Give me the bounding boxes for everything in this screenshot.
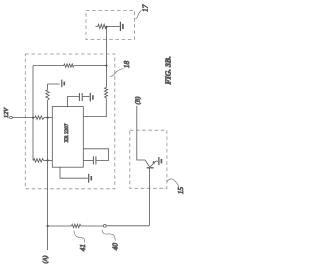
node dot at 12V junction (32, 116, 34, 118)
transistor Q1 collector wire down to bottom rail (148, 168, 150, 226)
capacitor C1 plates (78, 93, 80, 101)
IC bottom pin to ground (60, 167, 88, 178)
resistor on y=160.2 (34, 159, 44, 163)
svg-text:15: 15 (176, 187, 185, 195)
top horizontal wire y=65.6 (33, 65, 64, 67)
node dot in box 17 (105, 26, 107, 28)
timing capacitor loop right of IC (83, 149, 108, 161)
capacitor branch from IC top pin (67, 97, 79, 107)
wire cap to ground (83, 96, 90, 98)
svg-text:FIG. 3B.: FIG. 3B. (163, 56, 172, 84)
label 41 leader (74, 231, 85, 243)
svg-text:XR 2207: XR 2207 (64, 123, 70, 142)
svg-text:18: 18 (122, 61, 131, 69)
node dot at x=106.4 y=65.6 (105, 64, 107, 66)
12V terminal (10, 116, 13, 119)
transistor Q1 base lead diagonal (145, 160, 150, 167)
terminal circle 40 (103, 224, 106, 227)
ground below IC (88, 174, 90, 183)
node dot (46, 116, 48, 118)
transistor Q1 base bar (147, 167, 154, 169)
wire from resistor to ground in box 17 (107, 25, 120, 27)
resistor R vertical on x=106 (105, 88, 108, 98)
resistor on 12V wire (35, 116, 44, 120)
svg-text:17: 17 (140, 4, 149, 12)
svg-text:40: 40 (111, 243, 120, 251)
transistor Q1 emitter with arrow (150, 161, 156, 167)
left vertical wire x=33 (32, 66, 34, 161)
dashed box 18 (25, 54, 115, 189)
ground wire upper left (48, 84, 60, 90)
IC box U1 XR 2207 (52, 107, 83, 168)
12V wire (12, 117, 35, 119)
resistor in box 17 (96, 24, 107, 28)
bottom rail y=226 (48, 225, 72, 227)
ground after C1 (89, 93, 91, 102)
svg-text:12V: 12V (3, 107, 10, 118)
wire from box 17 down (vertical x=106.4) (105, 26, 107, 87)
wire down to corner and left to IC pin (83, 98, 106, 117)
label 17 leader (136, 11, 142, 19)
resistor vertical x=47.6 (46, 90, 49, 100)
label 18 leader (110, 69, 123, 77)
dashed box 15 (130, 130, 167, 188)
dashed box 17 (86, 11, 135, 40)
wire emitter to ground (156, 160, 159, 162)
lower-left horizontal wire y=160.2 (32, 159, 35, 161)
ground symbol upper left (61, 80, 63, 88)
label 40 leader (102, 230, 115, 241)
capacitor C2 plates (92, 156, 94, 164)
ground at emitter (158, 157, 160, 165)
node dot y=160 (46, 159, 48, 161)
svg-text:(B): (B) (135, 97, 142, 105)
long vertical wire x=47.6 down to (A) (47, 100, 49, 250)
resistor 41 (72, 224, 81, 228)
ground in box 17 (119, 22, 121, 31)
svg-text:(A): (A) (42, 256, 49, 264)
svg-text:41: 41 (78, 244, 87, 251)
node dot y=226 (46, 225, 48, 227)
label 15 leader (167, 179, 179, 187)
wire from (B) down into box 15 (137, 106, 145, 160)
resistor on top wire (64, 64, 74, 67)
